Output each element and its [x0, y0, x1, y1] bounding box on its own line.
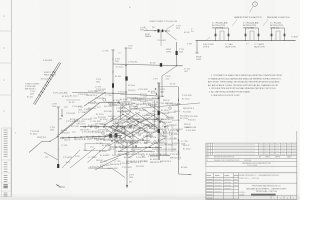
svg-text:EL 101-0: EL 101-0 — [100, 155, 107, 157]
svg-text:SEE NOTE 3: SEE NOTE 3 — [117, 111, 128, 113]
svg-text:1"-PG: 1"-PG — [153, 79, 158, 81]
svg-text:SEE NOTE 3: SEE NOTE 3 — [170, 158, 181, 160]
svg-text:EL 102: EL 102 — [69, 102, 75, 104]
svg-text:PG-1013: PG-1013 — [160, 136, 167, 138]
svg-text:SEE NOTE 3: SEE NOTE 3 — [160, 161, 171, 163]
svg-text:PG-1013: PG-1013 — [128, 90, 135, 92]
svg-text:EL 105: EL 105 — [170, 84, 175, 86]
svg-text:2"-PG-1012: 2"-PG-1012 — [120, 163, 130, 165]
svg-text:EL 101-0: EL 101-0 — [171, 134, 178, 136]
svg-text:SEE NOTE 3: SEE NOTE 3 — [127, 125, 137, 127]
svg-text:PG-1013: PG-1013 — [62, 133, 69, 135]
svg-text:1. CONTRACTOR SHALL FIELD VER: 1. CONTRACTOR SHALL FIELD VERIFY ALL EXI… — [211, 74, 282, 77]
svg-text:FLG 150#: FLG 150# — [183, 112, 192, 114]
svg-text:FLG 150#: FLG 150# — [136, 166, 145, 168]
svg-text:3"-PG-1015: 3"-PG-1015 — [92, 138, 102, 140]
svg-text:1017: 1017 — [184, 71, 188, 73]
svg-text:1016: 1016 — [179, 51, 183, 53]
svg-text:PG-1013: PG-1013 — [84, 109, 91, 111]
svg-text:SEE NOTE 3: SEE NOTE 3 — [243, 27, 254, 29]
svg-text:FLG 150#: FLG 150# — [71, 126, 80, 128]
svg-text:FROM TK-1: FROM TK-1 — [37, 137, 46, 139]
svg-text:EL 100-6: EL 100-6 — [30, 133, 37, 135]
svg-text:3"-PG-1015: 3"-PG-1015 — [182, 95, 192, 97]
svg-text:3"-PG-1015: 3"-PG-1015 — [186, 130, 196, 132]
svg-text:DN 2'-0": DN 2'-0" — [174, 111, 181, 113]
svg-text:ALL APPLICABLE CODES. PROVIDE: ALL APPLICABLE CODES. PROVIDE SUPPORTS A… — [208, 84, 279, 87]
svg-text:2"-PG-1012: 2"-PG-1012 — [116, 108, 126, 110]
svg-text:2"-PG-1012: 2"-PG-1012 — [72, 106, 82, 108]
svg-text:DN 2'-0": DN 2'-0" — [108, 149, 115, 151]
svg-text:4"-PG-1020: 4"-PG-1020 — [170, 154, 180, 156]
svg-text:FLG 150#: FLG 150# — [172, 120, 181, 122]
svg-text:PG-1013: PG-1013 — [116, 143, 123, 145]
svg-text:(TYP): (TYP) — [166, 51, 171, 53]
svg-text:PG-1013: PG-1013 — [172, 143, 179, 145]
svg-text:FLG 150#: FLG 150# — [104, 111, 113, 113]
svg-text:2"-PG-1016: 2"-PG-1016 — [128, 62, 137, 64]
svg-text:VALVE (TYP): VALVE (TYP) — [225, 46, 236, 49]
svg-text:2"-PG-1012: 2"-PG-1012 — [136, 157, 146, 159]
svg-text:2. PROVIDE PIPE SUPPORTS AT M: 2. PROVIDE PIPE SUPPORTS AT MAX SPACING … — [209, 87, 277, 90]
svg-text:EL 102-6: EL 102-6 — [99, 151, 106, 153]
svg-text:EL 98-6: EL 98-6 — [181, 167, 187, 169]
svg-text:DN 2'-0": DN 2'-0" — [146, 115, 153, 117]
svg-text:4. SEE DWG P-102 FOR CONT.: 4. SEE DWG P-102 FOR CONT. — [211, 95, 240, 97]
svg-text:1014: 1014 — [128, 48, 132, 50]
svg-text:EL 102-6: EL 102-6 — [62, 96, 69, 98]
svg-text:FIELD VERIFY: FIELD VERIFY — [44, 74, 57, 76]
svg-text:2"-PG-1012: 2"-PG-1012 — [132, 154, 142, 156]
svg-text:4"-PG-1020: 4"-PG-1020 — [92, 132, 102, 134]
svg-text:SEE NOTE 3: SEE NOTE 3 — [183, 108, 194, 110]
svg-text:NO.: NO. — [207, 157, 211, 159]
svg-text:RF (TYP): RF (TYP) — [180, 118, 188, 120]
svg-text:DN 2'-0": DN 2'-0" — [184, 124, 191, 126]
svg-text:1022: 1022 — [115, 61, 119, 63]
svg-text:2"-PG-1012: 2"-PG-1012 — [162, 122, 172, 124]
svg-text:4"-PG-1020: 4"-PG-1020 — [170, 130, 180, 132]
svg-text:EL 106-0: EL 106-0 — [116, 67, 123, 69]
svg-text:1021: 1021 — [96, 81, 100, 83]
svg-text:W-1: W-1 — [152, 27, 155, 29]
svg-text:1032: 1032 — [50, 129, 54, 131]
svg-text:REVISION DESCRIPTION: REVISION DESCRIPTION — [214, 157, 235, 159]
svg-text:DN 2'-0": DN 2'-0" — [64, 140, 71, 142]
svg-text:PG-1013: PG-1013 — [188, 120, 195, 122]
svg-text:4"-PG-1020: 4"-PG-1020 — [82, 132, 92, 134]
svg-text:2"-PG: 2"-PG — [187, 44, 192, 46]
svg-text:EL 104: EL 104 — [115, 76, 121, 78]
svg-text:4: 4 — [15, 133, 16, 135]
svg-text:3"-PG-1015: 3"-PG-1015 — [148, 156, 158, 158]
svg-text:EL 102-6: EL 102-6 — [183, 149, 190, 151]
svg-text:CONN. TO EXIST 2"-PG @ EL 106: CONN. TO EXIST 2"-PG @ EL 106 — [149, 21, 177, 23]
svg-text:PG-1013: PG-1013 — [139, 110, 146, 112]
svg-text:EL 101-0: EL 101-0 — [182, 99, 189, 101]
svg-text:EL 106: EL 106 — [184, 32, 189, 34]
svg-text:PG-1013: PG-1013 — [100, 124, 107, 126]
svg-text:EL 102-6: EL 102-6 — [148, 91, 155, 93]
svg-text:4"-PG-1020-A1A: 4"-PG-1020-A1A — [53, 91, 68, 94]
svg-text:TO FABRICATION. ALL DIMENSIONS: TO FABRICATION. ALL DIMENSIONS SHALL BE … — [208, 77, 281, 80]
svg-text:EL 101-0: EL 101-0 — [96, 114, 103, 116]
svg-text:2"-PG-1033: 2"-PG-1033 — [63, 157, 72, 159]
svg-text:3"-PG-1015: 3"-PG-1015 — [90, 103, 100, 105]
svg-text:DN 2'-0": DN 2'-0" — [96, 160, 103, 162]
svg-text:MATCH LINE: MATCH LINE — [186, 126, 197, 129]
svg-text:(TYP 3): (TYP 3) — [203, 47, 210, 49]
svg-text:FLG 150#: FLG 150# — [130, 143, 139, 145]
svg-text:PG-1013: PG-1013 — [131, 109, 138, 111]
svg-text:TO HDR: TO HDR — [291, 36, 298, 38]
svg-text:2"-PG-1012: 2"-PG-1012 — [158, 143, 168, 145]
svg-text:SEE NOTE 3: SEE NOTE 3 — [212, 27, 223, 29]
svg-text:APPD: APPD — [276, 156, 281, 159]
svg-text:EL 101-0: EL 101-0 — [88, 125, 95, 127]
svg-text:SEE NOTE 3: SEE NOTE 3 — [86, 95, 97, 97]
svg-text:NOTE 3: NOTE 3 — [270, 27, 277, 29]
svg-text:SEE DETAIL 1 DWG P-104: SEE DETAIL 1 DWG P-104 — [267, 16, 289, 19]
svg-text:DN 2'-0": DN 2'-0" — [120, 94, 127, 96]
svg-text:3. ALL VALVES ACCESSIBLE FROM: 3. ALL VALVES ACCESSIBLE FROM GRADE. — [209, 91, 251, 94]
svg-text:VALVE (TYP): VALVE (TYP) — [254, 46, 265, 49]
svg-text:4"-PG-1020: 4"-PG-1020 — [100, 165, 110, 167]
svg-text:EL 97: EL 97 — [66, 162, 70, 164]
svg-text:3"-PG-1015: 3"-PG-1015 — [88, 91, 98, 93]
svg-text:FLG 150#: FLG 150# — [144, 151, 153, 153]
svg-text:1019: 1019 — [30, 93, 34, 95]
svg-text:3"-PG-1015: 3"-PG-1015 — [156, 129, 166, 131]
svg-text:PROPOSED GAS PRODUCTS CO.: PROPOSED GAS PRODUCTS CO. — [252, 185, 281, 188]
svg-text:2"-PG-1025: 2"-PG-1025 — [66, 113, 75, 115]
svg-text:1017: 1017 — [166, 78, 170, 80]
svg-text:GRINDER PUMP P-101A (TYP 3): GRINDER PUMP P-101A (TYP 3) — [234, 16, 262, 19]
svg-text:2"-PG-1012: 2"-PG-1012 — [135, 128, 145, 130]
svg-text:FLG 150#: FLG 150# — [98, 117, 107, 119]
svg-text:2"-PG-1011: 2"-PG-1011 — [157, 40, 166, 42]
svg-text:ACME PROCESS CO. — ENGINEERING: ACME PROCESS CO. — ENGINEERING DIVISION — [239, 174, 279, 177]
svg-text:1010: 1010 — [140, 30, 144, 32]
svg-text:SEE NOTE 1: SEE NOTE 1 — [25, 88, 36, 90]
svg-text:4"-PG-1020: 4"-PG-1020 — [188, 116, 198, 118]
svg-text:EL 103-6: EL 103-6 — [140, 94, 147, 96]
svg-text:3: 3 — [287, 198, 288, 200]
svg-text:EL 101-0: EL 101-0 — [70, 96, 77, 98]
svg-text:PIPING PLAN — UNIT 100: PIPING PLAN — UNIT 100 — [256, 190, 277, 193]
svg-text:2"-PG: 2"-PG — [75, 156, 80, 158]
svg-text:1024: 1024 — [52, 106, 56, 108]
svg-text:DN 2'-0": DN 2'-0" — [163, 100, 170, 102]
svg-text:CHKD: CHKD — [265, 157, 271, 159]
svg-text:EL 101-0: EL 101-0 — [124, 157, 131, 159]
svg-text:3"-PG-1015: 3"-PG-1015 — [167, 125, 177, 127]
svg-text:J.S. 10-12-84: J.S. 10-12-84 — [247, 165, 257, 167]
svg-text:EL 101-0: EL 101-0 — [160, 154, 167, 156]
svg-text:4"-PG-1020: 4"-PG-1020 — [138, 89, 148, 91]
svg-text:PG-1013: PG-1013 — [108, 116, 115, 118]
svg-text:EL 104-6: EL 104-6 — [128, 85, 135, 87]
svg-text:6"-EX-STM: 6"-EX-STM — [43, 60, 53, 62]
svg-text:SUMP: SUMP — [196, 59, 202, 61]
svg-text:DN 2'-0": DN 2'-0" — [183, 145, 190, 147]
svg-text:EL 101-0: EL 101-0 — [100, 119, 107, 121]
svg-text:SEE NOTE 3: SEE NOTE 3 — [104, 136, 115, 138]
svg-text:1012: 1012 — [176, 28, 180, 30]
svg-text:1033: 1033 — [129, 177, 133, 179]
svg-text:ANY WORK. PIPING SHALL BE INST: ANY WORK. PIPING SHALL BE INSTALLED PER … — [208, 81, 280, 84]
svg-text:DN 2'-0": DN 2'-0" — [152, 111, 159, 113]
svg-text:EL 106: EL 106 — [150, 62, 156, 64]
svg-text:4: 4 — [293, 198, 294, 200]
svg-text:EL 105-0: EL 105-0 — [41, 79, 48, 81]
svg-text:4"-PG-1021: 4"-PG-1021 — [118, 91, 127, 93]
svg-text:PG-1013: PG-1013 — [143, 132, 150, 134]
svg-text:MECHANICAL EQUIPMENT — GRINDER: MECHANICAL EQUIPMENT — GRINDER PUMPS — [247, 187, 288, 190]
svg-text:GRADE: GRADE — [145, 35, 152, 38]
svg-text:1: 1 — [274, 198, 275, 200]
svg-text:4"-PG-1020: 4"-PG-1020 — [108, 168, 118, 170]
svg-text:1030: 1030 — [160, 91, 164, 93]
svg-text:2: 2 — [281, 198, 282, 200]
svg-text:EL 103: EL 103 — [27, 97, 33, 99]
svg-text:EL 102-6: EL 102-6 — [150, 159, 157, 161]
